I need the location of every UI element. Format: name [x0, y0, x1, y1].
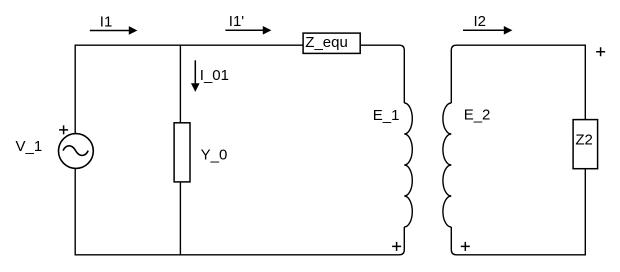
svg-text:E_2: E_2 — [464, 107, 491, 124]
svg-text:E_1: E_1 — [373, 107, 400, 124]
svg-text:Z_equ: Z_equ — [305, 34, 348, 51]
svg-text:V_1: V_1 — [16, 138, 43, 155]
svg-text:I2: I2 — [474, 13, 487, 30]
svg-text:I1': I1' — [229, 13, 245, 30]
svg-text:Y_0: Y_0 — [201, 146, 228, 163]
svg-text:I_01: I_01 — [200, 67, 229, 84]
svg-text:I1: I1 — [100, 13, 113, 30]
svg-text:Z2: Z2 — [575, 132, 593, 149]
